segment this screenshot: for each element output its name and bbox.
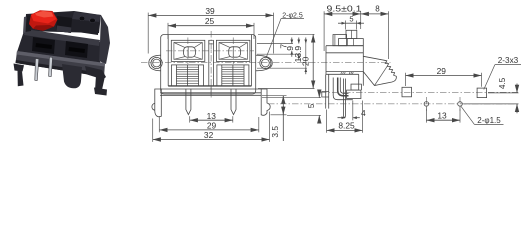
front left foot <box>152 89 161 117</box>
side arm crease <box>375 66 388 86</box>
dim 25 <box>168 16 254 39</box>
footprint hole right <box>458 102 463 107</box>
svg-text:4.5: 4.5 <box>498 77 507 89</box>
front left ear ring <box>153 59 161 67</box>
photo front recess left slot <box>36 43 53 49</box>
photo: speaker terminal component <box>14 10 111 95</box>
photo right button block top <box>72 12 101 22</box>
svg-text:4: 4 <box>361 108 366 118</box>
front flange outline <box>161 35 256 95</box>
photo center notch floor <box>56 26 71 34</box>
photo front recess right <box>65 41 88 58</box>
front window right diagonals <box>219 43 247 60</box>
side wide top block <box>339 39 364 46</box>
front vertical centerline middle <box>210 31 212 99</box>
front block bottom edge <box>168 85 251 87</box>
photo red button <box>29 10 58 31</box>
side dim 5 <box>346 22 357 24</box>
dim 9 <box>257 38 300 61</box>
photo right leg thigh <box>85 66 106 80</box>
dim 39 <box>148 6 273 54</box>
photo red button top face <box>31 11 57 24</box>
photo center post between buttons <box>56 16 73 33</box>
svg-text:2-φ1.5: 2-φ1.5 <box>477 116 501 125</box>
footprint holes centerline <box>268 103 518 105</box>
svg-text:3.5: 3.5 <box>270 126 280 138</box>
photo flange top highlight <box>17 51 105 67</box>
photo red button bright streak <box>35 11 54 18</box>
photo flange bottom shadow <box>16 60 105 77</box>
svg-text:9.5±0.1: 9.5±0.1 <box>327 5 363 14</box>
photo center peg <box>62 64 82 88</box>
side cap box <box>346 30 357 38</box>
photo body front panel <box>17 31 101 63</box>
front base center tick <box>210 86 212 95</box>
front center post <box>208 40 210 86</box>
photo red button bottom shadow <box>33 25 54 31</box>
photo right side face <box>99 15 110 64</box>
footprint dim 4.5 <box>516 84 518 93</box>
photo right block dimple 1 <box>79 16 85 21</box>
dim 5 <box>262 90 321 123</box>
photo left wall <box>25 15 32 32</box>
footprint dim 13 <box>426 119 460 121</box>
side dim 9.5±0.1 <box>324 13 361 15</box>
front left ear lobe <box>149 55 161 71</box>
dim 32 bottom <box>153 112 270 142</box>
footprint squares centerline <box>320 91 518 93</box>
photo pin 1 <box>35 59 39 81</box>
front window right outer <box>216 40 250 61</box>
side dim 8 <box>361 13 389 15</box>
svg-text:13: 13 <box>437 111 447 121</box>
side body block <box>325 46 327 75</box>
dim 7 <box>257 38 293 57</box>
front centerline horizontal through windows <box>166 50 254 52</box>
photo front recess right slot <box>69 47 86 53</box>
side bottom-left notch box <box>322 92 329 98</box>
side body top surface <box>326 45 363 47</box>
front window left diagonals <box>174 43 202 60</box>
svg-text:20: 20 <box>301 56 311 66</box>
front hatch block right <box>217 65 249 86</box>
front pin right <box>231 89 236 115</box>
footprint dim 29 <box>406 75 482 77</box>
photo flange strip <box>16 51 106 77</box>
front pin left <box>186 89 191 115</box>
svg-text:8.25: 8.25 <box>338 121 355 131</box>
svg-text:25: 25 <box>205 16 215 26</box>
photo right leg shin <box>95 76 105 93</box>
side dim 4 <box>352 101 354 121</box>
front vertical centerline right window <box>232 38 234 65</box>
footprint square right <box>477 88 487 98</box>
photo body ledge band <box>24 29 100 46</box>
front base strip <box>160 88 261 90</box>
front window right inner <box>219 43 247 60</box>
front window left outer <box>171 40 205 61</box>
side step box <box>333 35 347 46</box>
front/side main centerline through ears <box>141 62 391 64</box>
side contact J thick <box>338 78 349 96</box>
side contact J inner <box>340 78 348 94</box>
svg-text:29: 29 <box>207 121 217 131</box>
front right ear ring <box>262 59 270 67</box>
dim 29 bottom <box>159 117 258 132</box>
footprint square left <box>402 87 412 97</box>
front hatch block left <box>172 65 204 86</box>
photo left foot shin <box>18 71 24 87</box>
side dim 8.25 <box>327 129 363 131</box>
photo right foot pad <box>94 88 107 96</box>
dim 13.9 <box>257 38 307 75</box>
photo front recess left <box>32 37 55 54</box>
front right foot <box>261 89 270 115</box>
photo right button block front <box>71 19 99 35</box>
front vertical centerline left window <box>187 38 189 65</box>
photo pin 2 <box>49 57 53 77</box>
side button arm with serrations <box>363 56 396 85</box>
side small box right <box>351 84 359 90</box>
photo left foot arm <box>14 64 25 72</box>
photo buttons row backing <box>25 11 101 33</box>
svg-text:8: 8 <box>375 5 380 14</box>
svg-text:2-3x3: 2-3x3 <box>498 56 519 65</box>
side right staircase <box>359 74 362 90</box>
svg-text:32: 32 <box>204 130 214 140</box>
front window right stadium <box>229 47 241 57</box>
photo right block dimple 2 <box>90 18 96 23</box>
label 2-phi2.5 with leader <box>266 12 304 57</box>
dim 13 bottom <box>190 111 233 123</box>
side left wall lower <box>325 74 327 108</box>
side body ledge line <box>326 52 363 54</box>
svg-text:5: 5 <box>349 14 353 23</box>
footprint hole left <box>424 102 429 107</box>
svg-text:29: 29 <box>437 66 447 76</box>
photo left corner highlight <box>23 17 27 34</box>
front window left stadium <box>184 47 196 57</box>
svg-text:13: 13 <box>207 111 217 121</box>
front inner block left edge <box>167 35 169 86</box>
dim 3.5 <box>262 96 287 141</box>
front inner block right edge <box>251 35 253 86</box>
side step line with ticks <box>326 73 359 75</box>
front window left inner <box>174 43 202 60</box>
dim 20 <box>258 34 315 88</box>
svg-text:39: 39 <box>205 6 215 16</box>
side contact L outer <box>333 78 353 100</box>
front right ear lobe <box>256 55 273 71</box>
side lower box right <box>347 90 361 98</box>
side pin <box>344 79 346 118</box>
